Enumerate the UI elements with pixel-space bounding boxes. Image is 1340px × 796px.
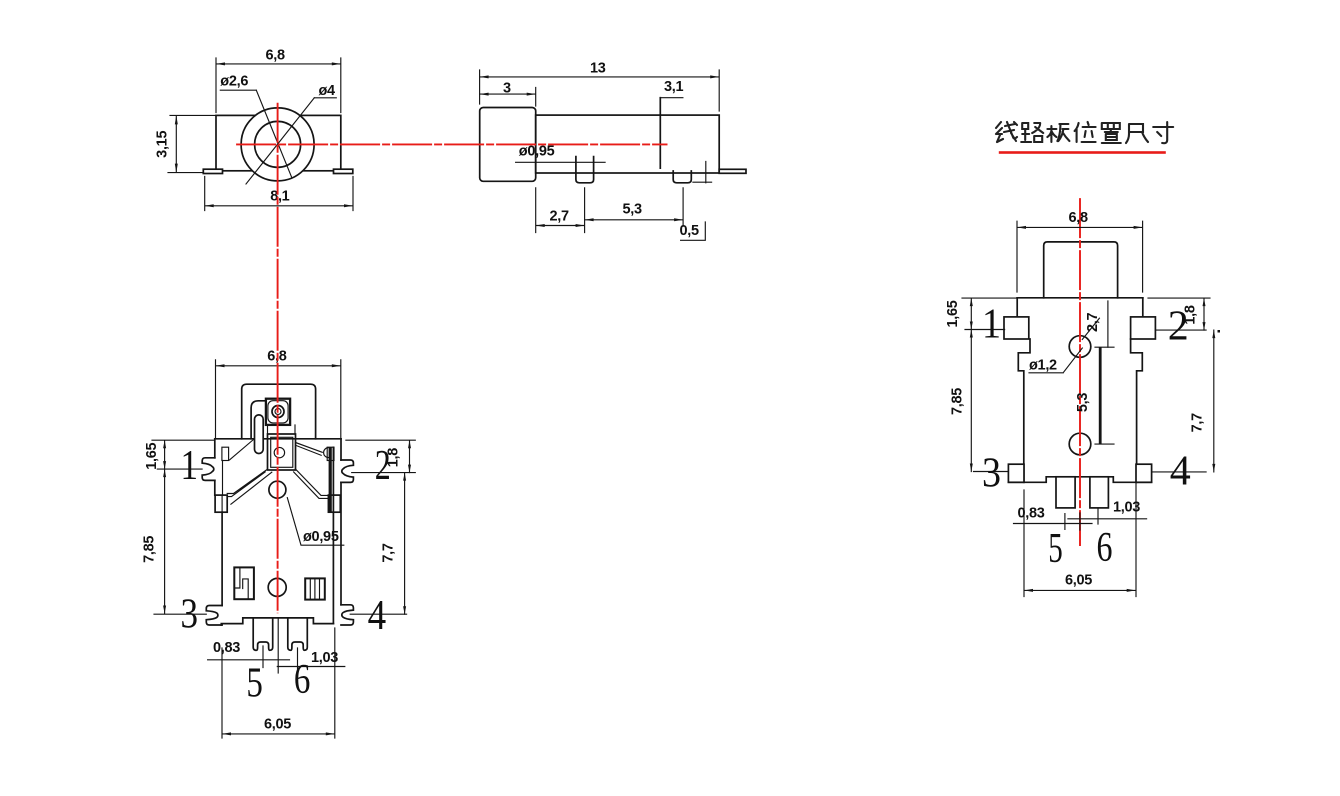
svg-text:7,85: 7,85 <box>142 536 158 563</box>
bv middle square hole <box>274 447 284 457</box>
dim 1,65 bottom view <box>152 440 215 469</box>
side body <box>536 115 720 173</box>
pv dim 7,85 <box>970 330 972 472</box>
svg-text:1: 1 <box>181 443 199 489</box>
pv numeral 3 leader <box>974 471 1009 473</box>
svg-text:2,7: 2,7 <box>550 208 569 224</box>
bv body top edge <box>215 438 341 440</box>
pv dim 6,8 <box>1017 221 1143 292</box>
dim 13 <box>480 70 720 111</box>
pin 2 fork <box>341 460 353 482</box>
bv capsule slot <box>255 415 264 454</box>
svg-text:ø1,2: ø1,2 <box>1029 358 1057 374</box>
dim 8,1 front <box>205 177 353 211</box>
svg-text:2,7: 2,7 <box>1085 313 1101 332</box>
bv diagonal left top <box>230 439 255 460</box>
svg-text:6: 6 <box>1097 525 1113 571</box>
pin 3 fork <box>206 606 222 626</box>
pv numeral 2 leader <box>1155 329 1206 331</box>
svg-text:4: 4 <box>1170 449 1191 495</box>
svg-text:0,83: 0,83 <box>1018 506 1045 522</box>
svg-text:6,05: 6,05 <box>264 716 291 732</box>
bv left strip pair <box>227 469 267 496</box>
red vertical centerline front+bottom <box>277 103 279 613</box>
svg-text:1,65: 1,65 <box>144 442 160 469</box>
svg-text:ø0,95: ø0,95 <box>519 143 555 159</box>
svg-text:6,8: 6,8 <box>1069 210 1088 226</box>
bv dark contact bar right <box>329 448 332 512</box>
pv dim 1,65 <box>962 298 1016 329</box>
bv right strip pair <box>294 469 329 498</box>
dim 7,85 bottom view <box>164 469 166 613</box>
pv body top edge <box>1017 297 1143 299</box>
svg-text:6,05: 6,05 <box>1065 572 1092 588</box>
dim 6,8 front <box>216 58 341 113</box>
pin 6 bottom tab <box>288 618 308 650</box>
svg-text:ø2,6: ø2,6 <box>220 73 248 89</box>
bv left lower rect <box>215 495 227 512</box>
pv body right profile <box>1131 298 1143 483</box>
leader diagonal Ø2,6 <box>256 90 291 177</box>
bv middle circle <box>268 578 286 596</box>
bv plate rounded corner <box>251 401 266 439</box>
pin 5 bottom tab <box>253 618 273 650</box>
char 尺 <box>1126 124 1148 143</box>
svg-text:3: 3 <box>982 451 1001 497</box>
side right lead <box>719 169 746 173</box>
svg-text:7,85: 7,85 <box>950 388 966 415</box>
pv pad 1 <box>1004 317 1029 339</box>
svg-text:6: 6 <box>294 657 311 703</box>
dim 6,8 bottom view <box>216 360 341 438</box>
bv tab ring <box>272 406 284 418</box>
leader Ø0,95 bottom view <box>287 498 344 546</box>
pin 4 fork <box>341 605 353 625</box>
svg-text:1,03: 1,03 <box>311 650 338 666</box>
svg-text:1,8: 1,8 <box>386 448 402 467</box>
pv bottom edge <box>1008 477 1151 483</box>
dim 6,05 bottom view <box>222 628 335 738</box>
pv numeral 1 leader <box>965 329 1005 331</box>
dim 5,3 <box>585 188 684 226</box>
svg-text:3,1: 3,1 <box>664 79 683 95</box>
leader diagonal Ø4 <box>246 98 314 184</box>
svg-text:6,8: 6,8 <box>266 47 285 63</box>
dim 3,1 bracket <box>660 97 683 99</box>
svg-text:1,65: 1,65 <box>945 300 961 327</box>
bv top rounded box <box>242 384 316 439</box>
front right flange <box>334 169 353 173</box>
svg-text:13: 13 <box>590 61 606 77</box>
numeral 3 leader <box>154 613 206 615</box>
pv pin 6 <box>1090 477 1109 508</box>
char 路 <box>1021 123 1043 142</box>
pv dim 6,05 <box>1024 482 1136 596</box>
pv dim 1,03 <box>1068 509 1147 524</box>
svg-text:1,8: 1,8 <box>1183 305 1199 324</box>
bv right lower rect <box>328 495 340 512</box>
numeral 1 leader <box>157 468 202 470</box>
pv body left profile <box>1017 298 1030 483</box>
front body outline <box>216 115 341 170</box>
pv pad 2 <box>1131 317 1156 339</box>
svg-text:5,3: 5,3 <box>1075 393 1091 412</box>
dim arrowheads vertical dims <box>163 440 166 448</box>
front outer circle (Ø4) <box>241 108 314 181</box>
bv moon bump right <box>324 448 329 458</box>
pin 1 fork <box>202 458 215 481</box>
dim 2,7 <box>536 188 585 233</box>
dim 7,7 bottom view <box>404 473 406 615</box>
bv right inner wall <box>332 447 334 623</box>
dim 3 <box>480 88 536 107</box>
pv dim 7,7 <box>1213 330 1215 472</box>
bv left steep diagonal <box>231 472 272 504</box>
pv top tab <box>1044 242 1118 298</box>
bv hatch square left <box>234 567 254 599</box>
svg-text:1: 1 <box>982 301 1001 347</box>
side pin 2 tab <box>673 171 691 183</box>
pv pad 4 <box>1136 464 1152 482</box>
center tick between pins 5/6 <box>277 618 279 673</box>
svg-text:7,7: 7,7 <box>381 543 397 562</box>
bv tab inner rounded square <box>268 401 288 423</box>
pv small dot <box>1218 330 1221 333</box>
svg-text:0,83: 0,83 <box>213 640 240 656</box>
front inner circle (Ø2,6) <box>255 121 301 167</box>
bv square tab (thick) <box>266 399 290 425</box>
dim 0,5 bracket and ticks <box>681 162 712 241</box>
svg-text:3,15: 3,15 <box>155 131 171 158</box>
dim 3,15 front <box>168 115 215 172</box>
bv diagonal right top pair <box>296 443 323 456</box>
front left flange <box>203 169 222 173</box>
bv hatch square right <box>305 578 325 599</box>
char 位 <box>1075 122 1096 142</box>
numeral 2 leader <box>352 472 416 474</box>
bv left wall lower <box>221 512 223 605</box>
char 线 <box>996 122 1017 142</box>
pv numeral 4 leader <box>1152 471 1207 473</box>
bv left outer wall <box>214 439 216 495</box>
pv hole lower <box>1069 433 1091 455</box>
pv dim 0,83 <box>1014 513 1093 530</box>
title 线路板位置尺寸 (drawn strokes) <box>996 122 1173 143</box>
char 寸 <box>1153 122 1173 143</box>
svg-text:4: 4 <box>368 593 387 639</box>
bv top small square right <box>327 447 334 460</box>
dim 1,03 bottom view <box>277 648 345 671</box>
title red underline <box>999 151 1166 154</box>
bv top small square left <box>222 447 229 460</box>
pv hole upper Ø1,2 <box>1069 336 1091 358</box>
char 置 <box>1102 123 1121 143</box>
svg-text:8,1: 8,1 <box>270 189 289 205</box>
pv dim 1,8 <box>1148 298 1210 330</box>
svg-text:ø4: ø4 <box>319 83 336 99</box>
numeral 4 leader <box>350 613 406 615</box>
pv 5,3 bar <box>1099 347 1102 444</box>
bv middle square outer <box>268 434 296 470</box>
bv central circle Ø0,95 <box>269 481 286 498</box>
side divider line (3,1 section) <box>659 98 661 168</box>
dim Ø0,95 side <box>516 161 606 163</box>
pv pad 3 <box>1008 464 1024 482</box>
red horizontal centerline <box>236 143 667 145</box>
svg-text:5,3: 5,3 <box>623 201 642 217</box>
pv 2,7 ext line and leader <box>1082 301 1108 347</box>
svg-text:5: 5 <box>1048 526 1063 572</box>
bv bottom edge <box>221 618 333 625</box>
dim 1,8 bottom view <box>346 440 415 472</box>
bv middle square inner <box>271 437 293 467</box>
svg-text:5: 5 <box>246 660 263 706</box>
svg-text:ø0,95: ø0,95 <box>303 529 339 545</box>
pv pin 5 <box>1056 477 1075 508</box>
char 板 <box>1047 124 1069 142</box>
bv tab-square connectors <box>268 425 296 434</box>
bv inner wall left short <box>222 461 224 496</box>
side pin 1 slot <box>576 157 594 183</box>
side cap (rounded front barrel) <box>480 108 536 182</box>
svg-text:3: 3 <box>181 592 199 638</box>
pv red centerline <box>1079 198 1081 546</box>
svg-text:7,7: 7,7 <box>1190 413 1206 432</box>
dim 0,83 bottom view <box>208 646 290 668</box>
svg-text:0,5: 0,5 <box>680 223 699 239</box>
svg-text:3: 3 <box>503 81 511 97</box>
bv right outer wall <box>340 439 342 605</box>
